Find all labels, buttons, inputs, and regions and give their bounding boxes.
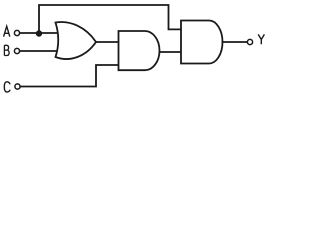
wire OR output to AND U2	[96, 41, 119, 43]
wire AND U2 output to AND U3	[160, 51, 182, 53]
wire B to OR gate	[20, 50, 59, 52]
output terminal Y	[247, 39, 252, 44]
or-gate U1	[56, 22, 97, 59]
node junction dot on A	[36, 30, 42, 36]
input terminal B	[14, 48, 19, 53]
label C	[4, 82, 10, 92]
wire junction to top rail	[39, 5, 182, 34]
label A	[4, 26, 10, 37]
input terminal C	[15, 84, 20, 89]
wire C to AND gate U2	[20, 65, 118, 87]
wire A to OR gate	[20, 32, 59, 34]
input terminal A	[14, 30, 19, 35]
and-gate U2	[119, 31, 160, 70]
wire Y output	[223, 41, 248, 43]
label Y	[258, 34, 264, 44]
and-gate U3	[181, 21, 223, 64]
label B	[4, 45, 9, 55]
